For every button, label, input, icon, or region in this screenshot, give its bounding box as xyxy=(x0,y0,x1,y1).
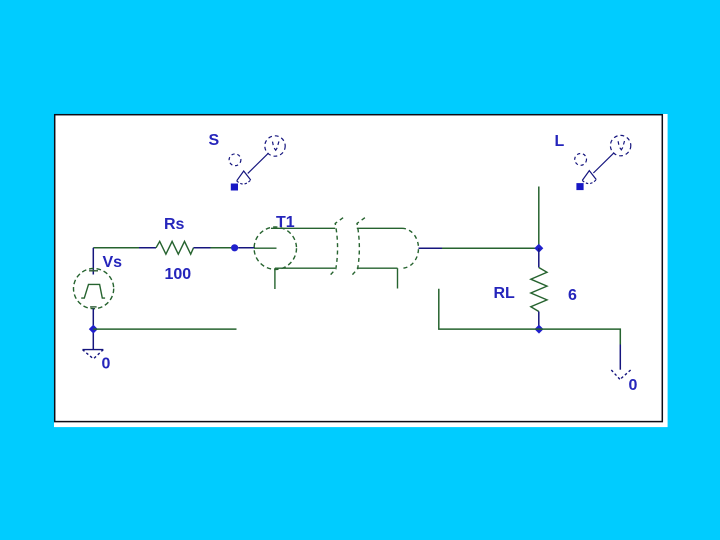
transformer T1 secondary D arc xyxy=(402,228,419,268)
svg-text:6: 6 xyxy=(568,287,577,304)
transformer T1 secondary bottom line xyxy=(357,267,398,269)
svg-text:RL: RL xyxy=(494,285,516,302)
wire node to T1 pin xyxy=(238,247,255,249)
svg-text:S: S xyxy=(209,132,220,149)
node junction RL bottom xyxy=(535,325,544,334)
wire T1 to RL node xyxy=(442,247,539,249)
transformer T1 output pin xyxy=(419,247,443,249)
voltage source Vs body (dashed circle) xyxy=(74,269,114,309)
node junction RL top xyxy=(534,244,543,253)
voltage source Vs minus mark xyxy=(90,306,97,308)
probe marker S xyxy=(229,136,285,191)
wire L-probe stem xyxy=(538,187,540,249)
ground 0 (right) pin xyxy=(619,345,621,370)
svg-text:0: 0 xyxy=(102,355,111,372)
resistor Rs zigzag xyxy=(156,241,194,254)
svg-text:100: 100 xyxy=(165,266,192,283)
resistor RL zigzag xyxy=(531,268,547,312)
svg-text:Vs: Vs xyxy=(103,254,123,271)
transformer T1 primary top line xyxy=(271,227,335,229)
wire bottom-left horizontal xyxy=(93,328,236,330)
node junction at Vs bottom xyxy=(89,325,98,334)
node junction Rs-T1 xyxy=(231,244,238,251)
transformer T1 secondary bottom pin xyxy=(397,268,399,288)
resistor RL top pin xyxy=(538,248,540,267)
svg-text:0: 0 xyxy=(629,377,638,394)
voltage source Vs bottom pin xyxy=(92,309,94,350)
voltage source Vs pulse waveform xyxy=(81,284,105,298)
wire Vs-top to Rs xyxy=(93,247,139,249)
resistor Rs left pin xyxy=(139,247,156,249)
resistor RL bottom pin xyxy=(538,312,540,330)
probe marker L xyxy=(575,135,631,190)
transformer T1 primary pin line xyxy=(254,247,277,249)
transformer T1 primary bottom pin xyxy=(274,268,276,289)
transformer T1 core arc right xyxy=(351,218,365,277)
svg-text:T1: T1 xyxy=(276,214,295,231)
wire Rs to node xyxy=(211,247,232,249)
ground 0 (right) xyxy=(611,370,630,379)
transformer T1 primary bottom line xyxy=(275,267,335,269)
svg-text:L: L xyxy=(555,133,565,150)
voltage source Vs top pin xyxy=(92,248,94,275)
transformer T1 primary coil (dashed circle) xyxy=(254,227,296,269)
transformer T1 core arc left xyxy=(329,218,343,277)
svg-text:Rs: Rs xyxy=(164,216,185,233)
transformer T1 secondary top line xyxy=(357,227,402,229)
voltage source Vs plus mark xyxy=(89,270,98,272)
resistor Rs right pin xyxy=(194,247,211,249)
ground 0 (left) xyxy=(83,350,104,359)
wire secondary return xyxy=(439,289,621,345)
